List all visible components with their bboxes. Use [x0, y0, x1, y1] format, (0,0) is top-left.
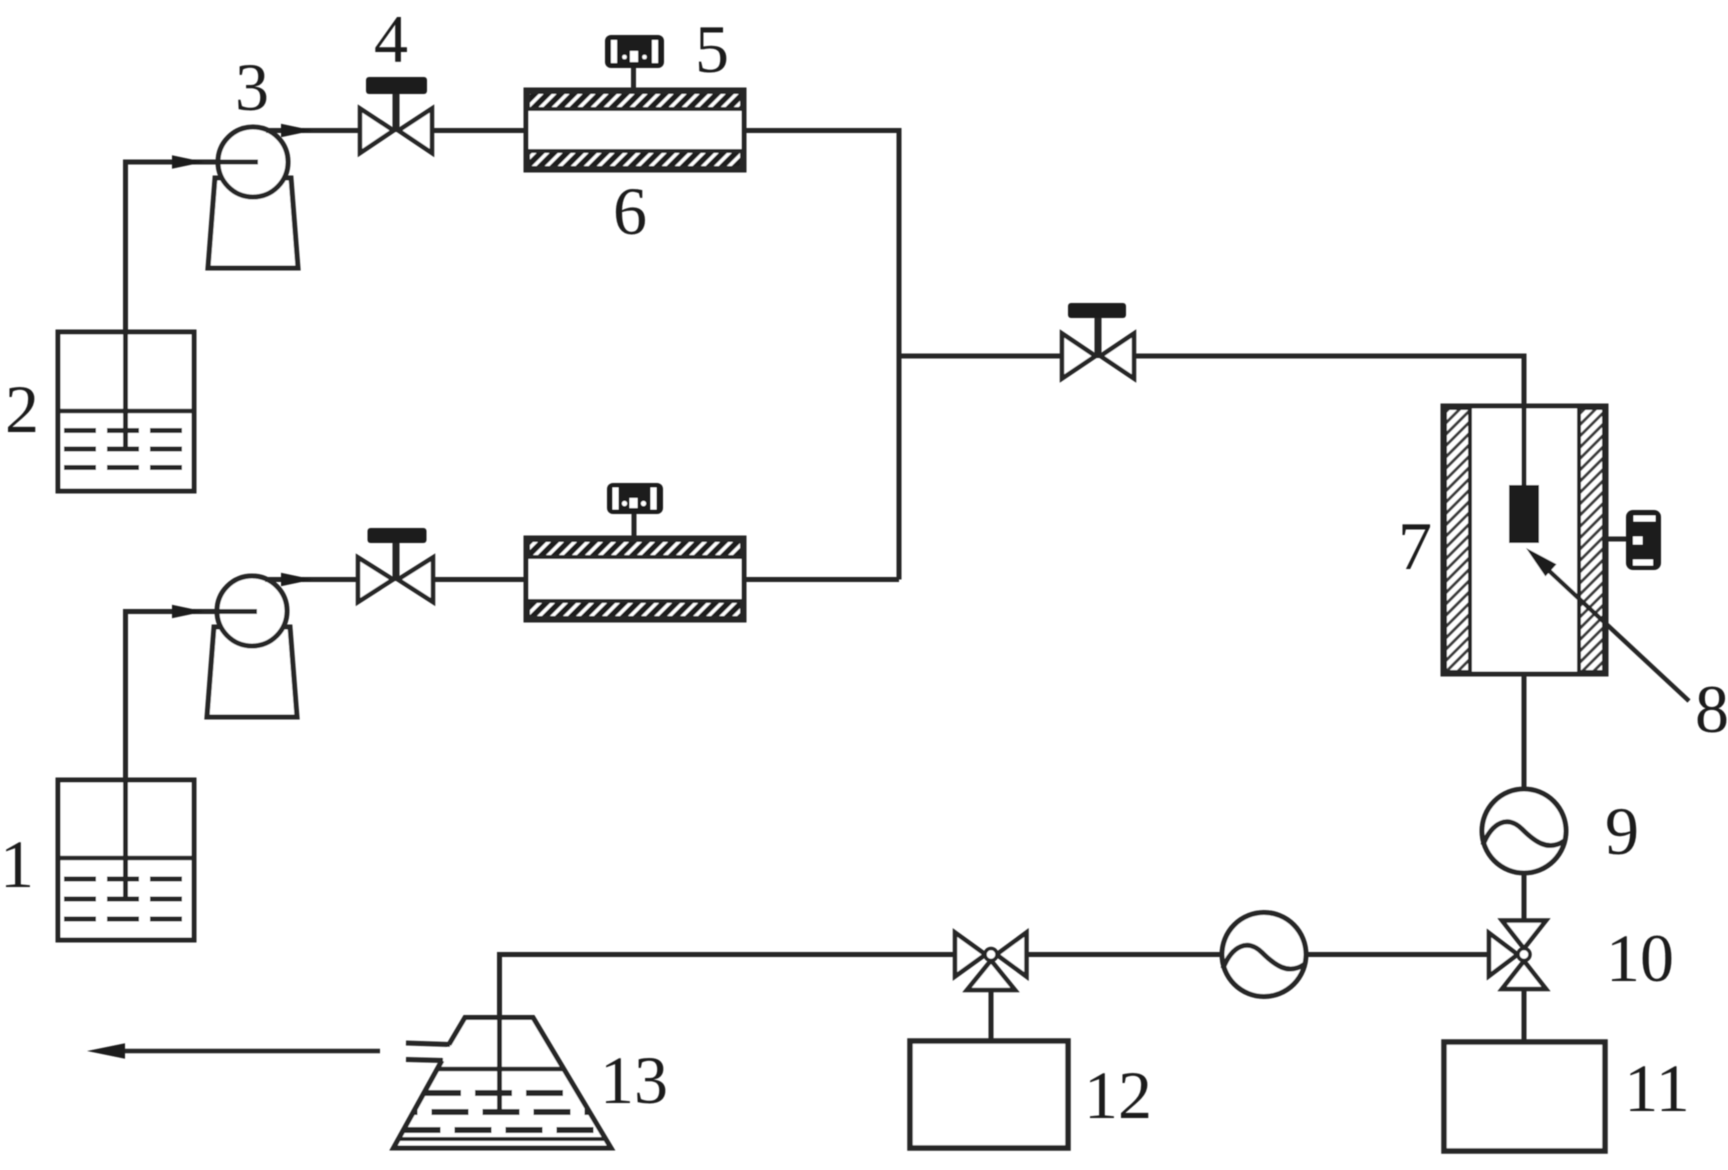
- arrow out of lower pump: [281, 573, 313, 587]
- valve 4 (upper): [360, 77, 432, 153]
- waste arrow line: [122, 1049, 380, 1054]
- arrow into pump 3: [172, 155, 204, 169]
- wire valve 10 to box 11: [1522, 989, 1527, 1043]
- wire lower valve to lower tube: [433, 577, 527, 582]
- svg-text:6: 6: [613, 173, 647, 249]
- wire pump3 outlet: [266, 128, 360, 133]
- wire tube6 to trunk and trunk down: [744, 131, 899, 580]
- svg-text:1: 1: [0, 826, 34, 902]
- wire into flask: [497, 1014, 502, 1114]
- 3-way valve 10: [1489, 921, 1546, 990]
- svg-text:13: 13: [600, 1042, 668, 1118]
- wire tank2 to pump3: [126, 162, 259, 450]
- controller at reactor right: [1604, 510, 1661, 570]
- svg-text:4: 4: [374, 1, 408, 77]
- sample 8 (black block in reactor): [1509, 485, 1539, 543]
- svg-text:2: 2: [5, 371, 39, 447]
- wire valve 10 left to wave pump: [1305, 952, 1490, 957]
- wire trunk to middle valve: [897, 354, 1063, 359]
- 3-way valve above box 12: [955, 933, 1027, 991]
- waste arrow head: [87, 1043, 125, 1059]
- box 12: [910, 1041, 1068, 1148]
- pump 9 (wave circle): [1482, 789, 1566, 873]
- pump 3 (upper): [208, 127, 298, 268]
- pointer line from label 8: [1526, 548, 1689, 701]
- wire 3-way valve down to box 12: [989, 989, 994, 1042]
- wire pump 9 to valve 10: [1522, 872, 1527, 922]
- box 11: [1444, 1042, 1605, 1151]
- wire wave pump to 3-way valve of 12: [1026, 952, 1224, 957]
- svg-text:5: 5: [695, 11, 729, 87]
- temperature controller 5 (upper): [605, 35, 664, 91]
- middle valve (unnumbered): [1062, 303, 1134, 379]
- svg-text:3: 3: [235, 49, 269, 125]
- tank 1 (lower feed tank): [58, 780, 194, 940]
- wire middle valve to reactor, down into reactor: [1134, 356, 1524, 486]
- arrow out of pump 3: [281, 124, 313, 138]
- wave pump (bottom line, unnumbered): [1222, 913, 1306, 997]
- svg-text:7: 7: [1398, 508, 1432, 584]
- arrowheads: [87, 124, 313, 1059]
- valve (lower, unnumbered): [358, 528, 433, 602]
- svg-text:11: 11: [1624, 1050, 1689, 1126]
- svg-text:12: 12: [1084, 1057, 1152, 1133]
- pump (lower, unnumbered): [207, 576, 297, 717]
- svg-text:9: 9: [1605, 793, 1639, 869]
- wire 3-way valve of 12 to flask 13: [500, 955, 956, 1017]
- svg-text:8: 8: [1695, 671, 1728, 747]
- wire tank1 to lower pump: [126, 612, 258, 899]
- wire reactor bottom to pump 9: [1522, 674, 1527, 791]
- heated tube (lower): [526, 538, 744, 620]
- arrow into lower pump: [172, 605, 204, 619]
- temperature controller (lower tube): [607, 483, 663, 539]
- heated tube 6 (upper): [526, 90, 744, 170]
- svg-text:10: 10: [1606, 920, 1674, 996]
- reactor 7 vessel: [1443, 406, 1606, 674]
- tank 2 (upper feed tank): [58, 332, 194, 491]
- wire valve4 to tube6: [432, 128, 527, 133]
- wire lower tube to trunk: [744, 577, 899, 582]
- wire lower pump outlet: [265, 577, 358, 582]
- flask 13: [394, 1018, 612, 1149]
